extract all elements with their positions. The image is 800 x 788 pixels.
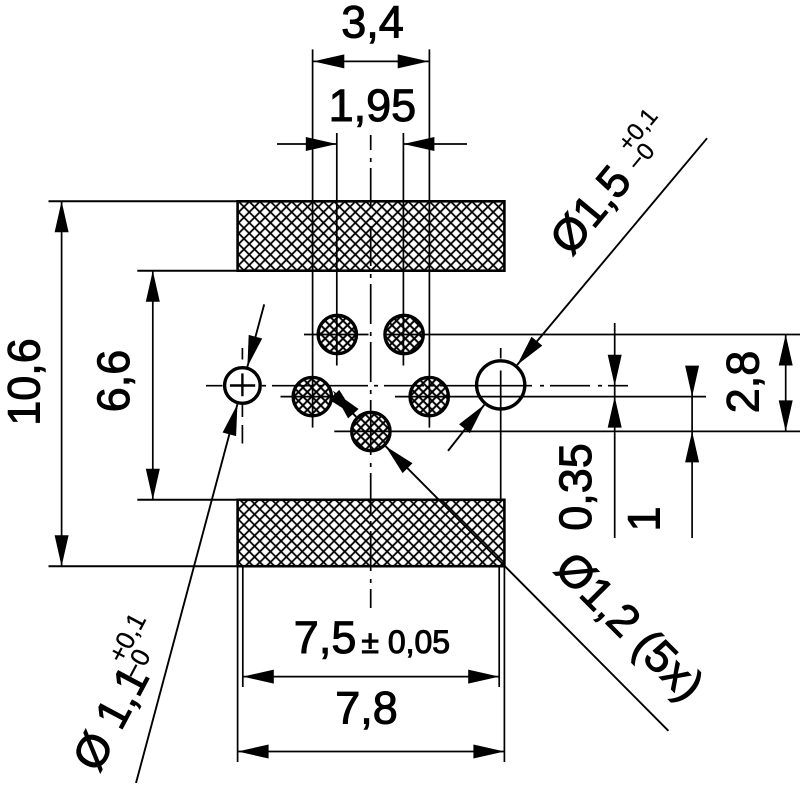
mid hole row centre line left (281, 396, 341, 398)
arrow to mid-left hole (333, 391, 359, 419)
svg-text:3,4: 3,4 (341, 0, 404, 47)
dimension line 7,8 (238, 751, 505, 753)
dimension line 1 (691, 366, 693, 538)
3,4 extension left / mid-left hole axis (312, 49, 314, 427)
arrows 7,8 (238, 745, 269, 759)
dimension line 3,4 (313, 60, 428, 62)
outline upper-inner edge extension (137, 270, 237, 272)
top hole row centre line right / 2,8 extension (384, 334, 800, 336)
outline bottom edge extension (49, 565, 238, 567)
outline top edge extension (49, 200, 238, 202)
hatched block top (238, 201, 505, 270)
dimension line 7,5 (243, 676, 499, 678)
label diameter 1,5 with tolerance (538, 103, 684, 263)
vertical centre line (370, 135, 372, 150)
leader diameter 1,1 (247, 304, 264, 366)
svg-text:7,8: 7,8 (335, 683, 398, 734)
svg-text:6,6: 6,6 (88, 350, 139, 413)
bottom hole centre line / 2,8 and 1 extension (334, 430, 800, 432)
right circle vertical axis (500, 348, 502, 359)
1,95 extension right / top-right hole axis (402, 133, 404, 366)
dimension line 1,95 right tail (403, 143, 467, 145)
arrows 10,6 (55, 201, 69, 232)
3,4 extension right / mid-right hole axis (428, 49, 430, 427)
dimension line 1,95 left tail (277, 143, 337, 145)
dimension line 0,35 (614, 323, 616, 538)
7,5 extension right (498, 566, 500, 687)
crosshair left circle (230, 373, 255, 396)
hole top-left (318, 315, 356, 353)
arrows diameter 1,1 (247, 335, 262, 367)
mid hole row centre line right / 0,35 and 1 extension (395, 396, 706, 398)
circle diameter 1,5 (477, 361, 525, 409)
svg-text:10,6: 10,6 (0, 338, 49, 426)
7,8 extension right (503, 566, 505, 762)
hole mid-right (410, 377, 448, 415)
svg-text:0,35: 0,35 (550, 443, 601, 531)
top hole row centre line left (304, 334, 369, 336)
dimension line 2,8 (785, 335, 787, 432)
hatched block bottom (238, 500, 505, 566)
arrows diameter 1,2 (329, 390, 356, 417)
dimension line 10,6 (61, 201, 63, 566)
arrows 2,8 (779, 335, 793, 366)
label diameter 1,1 with tolerance (51, 608, 182, 779)
hole bottom-centre (352, 412, 390, 450)
outline lower-inner edge extension (137, 499, 237, 501)
circle diameter 1,1 (225, 368, 261, 404)
arrows 1,95 (306, 137, 337, 151)
horizontal centre line (206, 385, 223, 387)
arrows 3,4 (313, 54, 344, 68)
hole top-right (385, 315, 423, 353)
dimension line 6,6 (152, 271, 154, 500)
1,95 extension left / top-left hole axis (336, 133, 338, 366)
left circle vertical axis (241, 348, 243, 360)
leader diameter 1,2 (334, 395, 356, 417)
leader diameter 1,5 (517, 138, 707, 365)
arrows 7,5 (243, 670, 274, 684)
arrows diameter 1,5 (517, 337, 542, 365)
arrows 0,35 (608, 355, 622, 386)
label diameter 1,2 (5x) (546, 542, 715, 711)
arrows 1 (685, 366, 699, 397)
hole mid-left (293, 377, 331, 415)
svg-text:2,8: 2,8 (718, 351, 769, 414)
svg-text:1,95: 1,95 (329, 80, 417, 131)
7,5 extension left (242, 566, 244, 687)
7,8 extension left (237, 566, 239, 762)
svg-text:1: 1 (619, 506, 670, 531)
arrows 6,6 (146, 271, 160, 302)
